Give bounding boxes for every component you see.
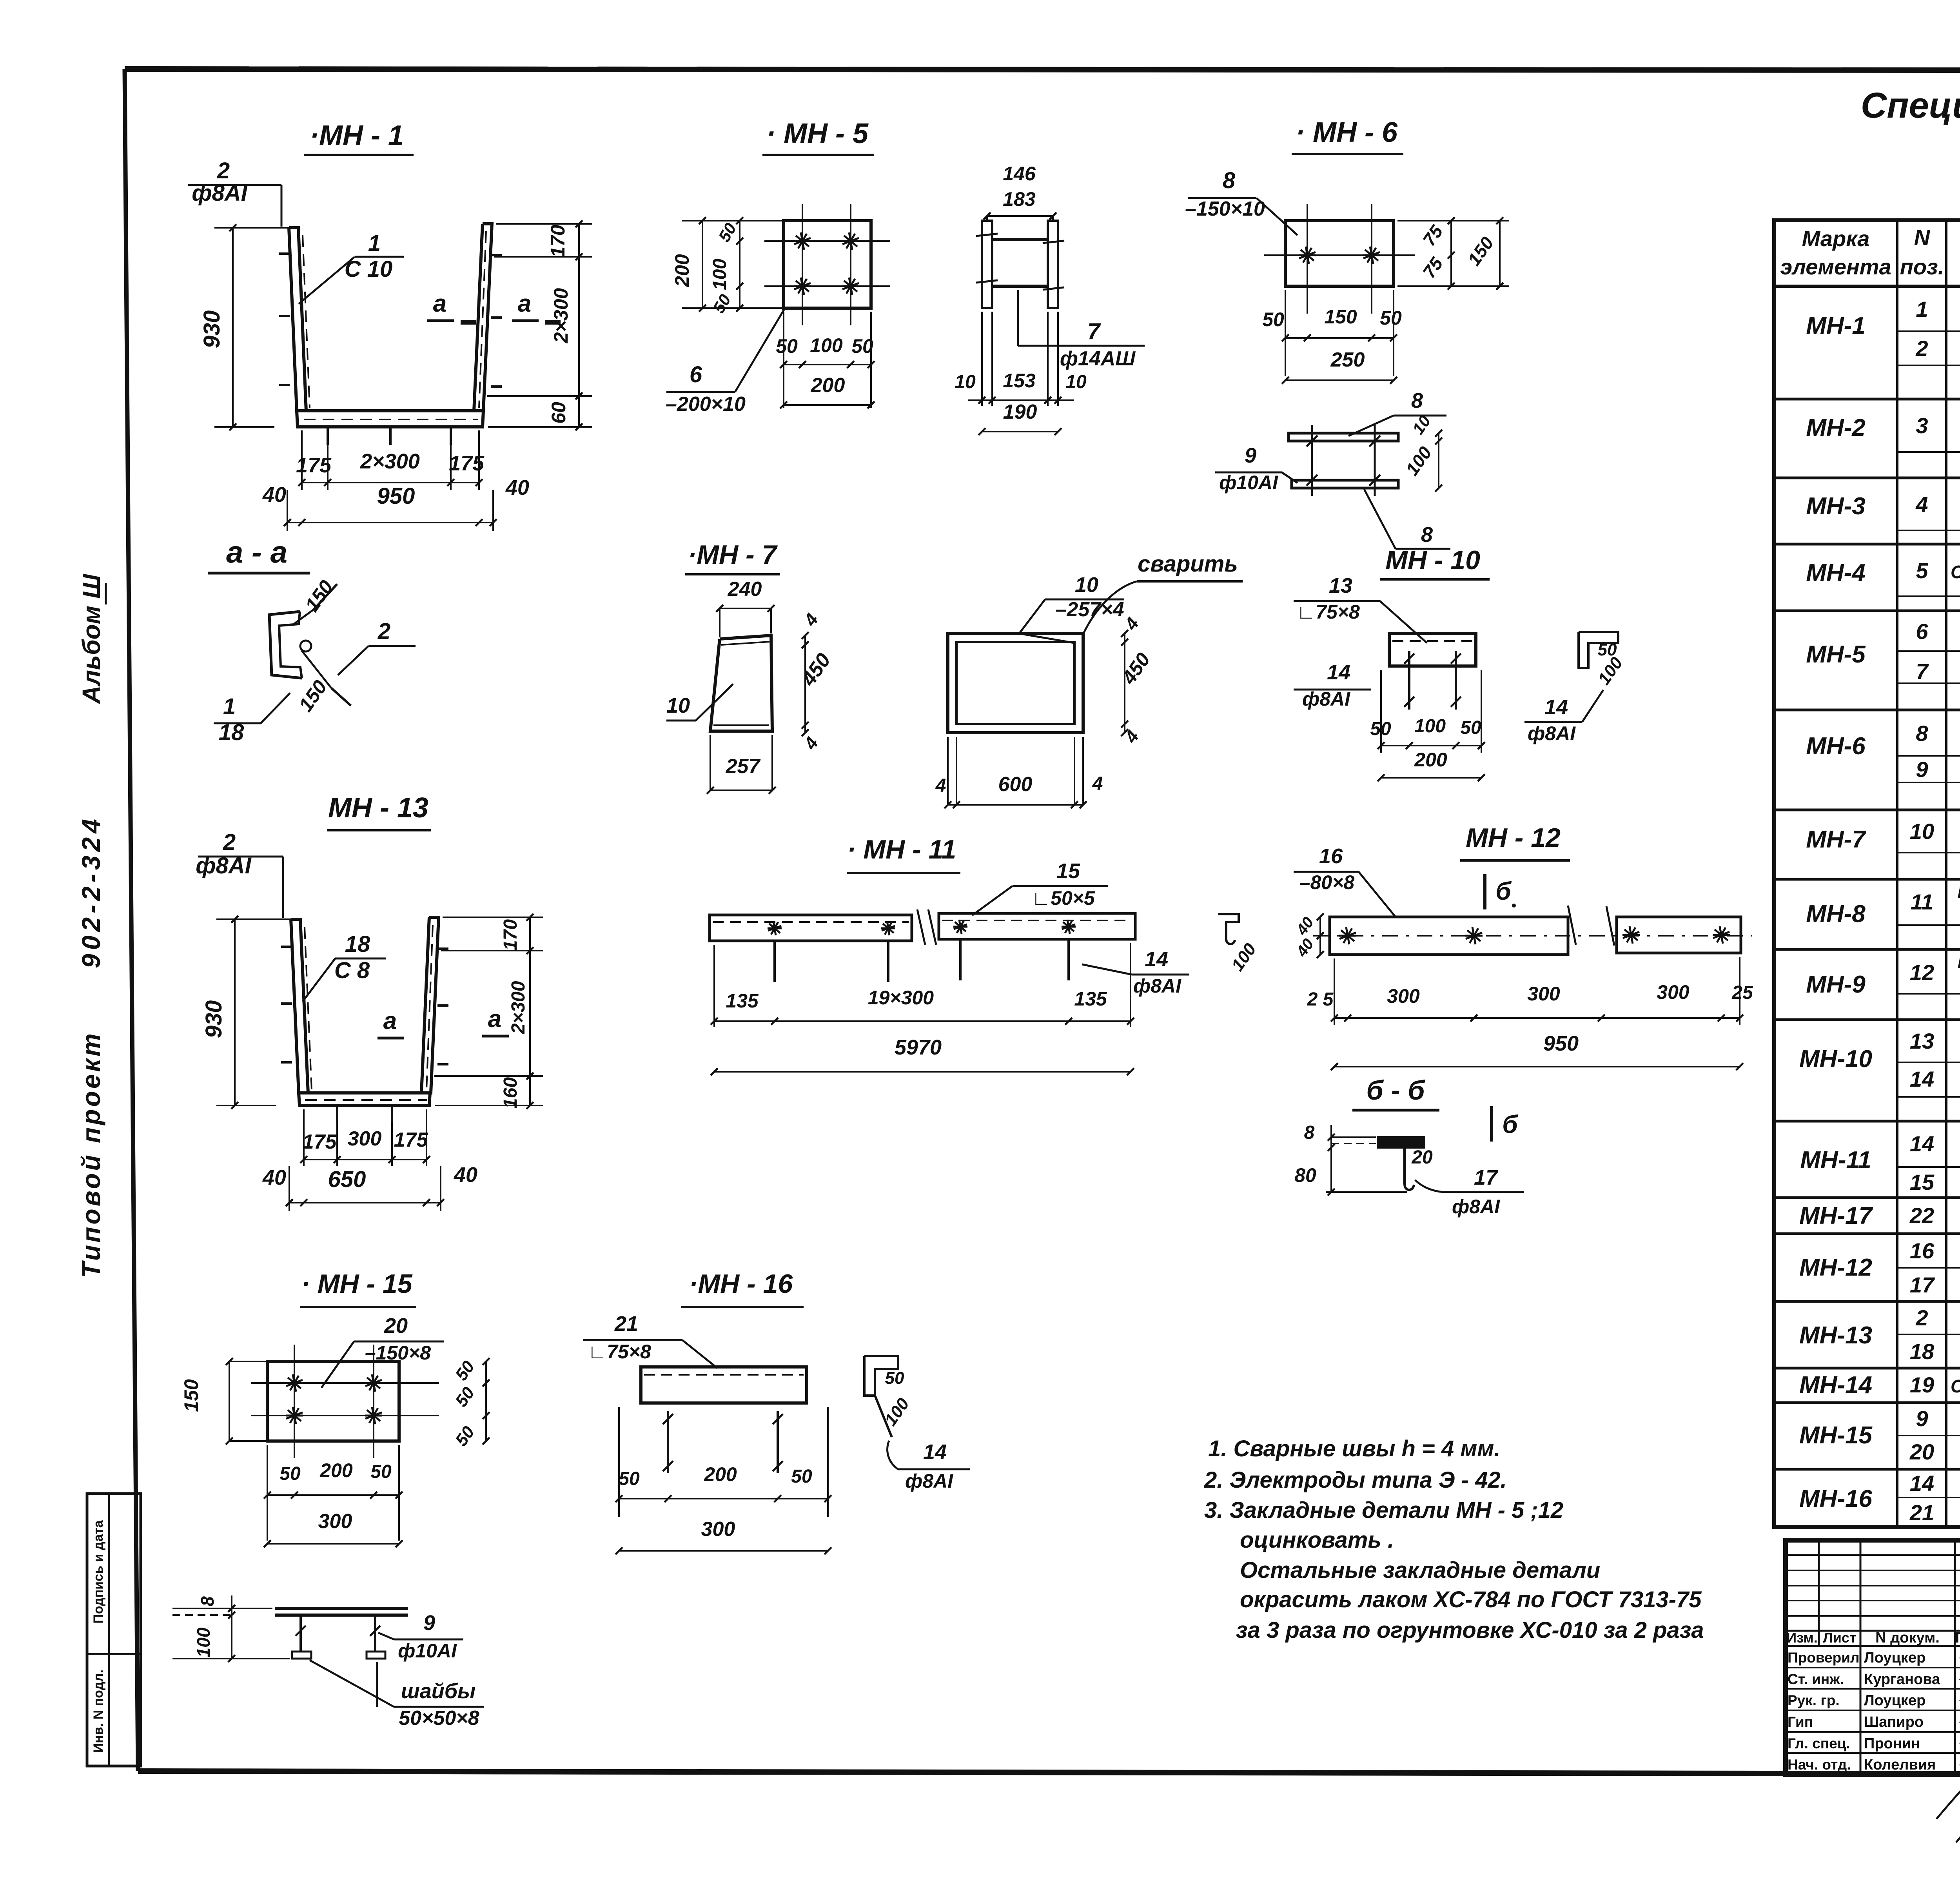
svg-text:50: 50: [619, 1468, 640, 1489]
svg-text:17: 17: [1474, 1166, 1499, 1189]
MN-10 angle symbol right with 50 100: [1524, 632, 1627, 744]
svg-text:300: 300: [1387, 985, 1420, 1007]
svg-text:7: 7: [1087, 319, 1101, 344]
MN-6 bottom dimensions 50 150 50 / 250: [1262, 290, 1402, 384]
MN-15 right dimensions 50 50 50: [452, 1357, 490, 1450]
svg-text:15: 15: [1910, 1170, 1935, 1194]
svg-text:4: 4: [1915, 492, 1928, 517]
svg-text:элемента: элемента: [1780, 254, 1891, 279]
MN-11 leader label 14 / f8AI with hook: [1082, 947, 1189, 997]
svg-text:Колелвия: Колелвия: [1864, 1757, 1936, 1773]
svg-text:ф14АШ: ф14АШ: [1060, 347, 1136, 370]
svg-text:Пронин: Пронин: [1864, 1735, 1920, 1752]
svg-text:50: 50: [709, 291, 734, 316]
svg-text:МН-7: МН-7: [1806, 826, 1866, 853]
svg-text:18: 18: [1910, 1339, 1935, 1364]
svg-text:3. Закладные детали МН - 5: 3. Закладные детали МН - 5 ;12: [1204, 1497, 1563, 1523]
svg-text:·МН - 16: ·МН - 16: [689, 1269, 793, 1299]
svg-text:МН-9: МН-9: [1806, 971, 1866, 998]
MN-10 angle piece with anchors (pos 13,14): [1389, 633, 1476, 710]
MN-6 plate plan view (pos 8): [1264, 204, 1415, 314]
MN-12 bottom dimensions 25 300 300 300 25 / 950: [1307, 957, 1753, 1070]
svg-text:50: 50: [452, 1383, 479, 1410]
svg-text:200: 200: [319, 1459, 353, 1481]
figure MN-10 title: [1380, 545, 1490, 579]
svg-text:153: 153: [1003, 370, 1036, 392]
svg-text:МН-8: МН-8: [1806, 900, 1866, 927]
svg-text:100: 100: [193, 1627, 214, 1657]
MN-11 bottom dimensions 135 19x300 135 / 5970: [711, 943, 1134, 1075]
svg-text:183: 183: [1003, 188, 1036, 210]
svg-text:8: 8: [1223, 168, 1236, 193]
svg-text:б: б: [1495, 877, 1512, 905]
svg-text:50×50×8: 50×50×8: [399, 1707, 479, 1730]
svg-text:950: 950: [1543, 1032, 1579, 1055]
svg-text:∟50×5: ∟50×5: [1031, 887, 1095, 909]
svg-text:160: 160: [500, 1077, 521, 1109]
svg-text:Проверил: Проверил: [1788, 1650, 1859, 1666]
MN-5 side bottom dimensions 10 153 10 / 190: [955, 312, 1087, 435]
svg-text:МН-17: МН-17: [1799, 1202, 1873, 1229]
svg-text:175: 175: [296, 454, 332, 477]
svg-text:40: 40: [1293, 936, 1317, 960]
section a-a channel detail: [269, 584, 351, 706]
svg-text:50: 50: [279, 1463, 301, 1484]
svg-text:МН - 13: МН - 13: [328, 792, 428, 824]
svg-text:Курганова: Курганова: [1864, 1671, 1940, 1688]
MN-1 right dimensions 170 2x300 60: [487, 220, 592, 430]
MN-10 bottom dimensions 50 100 50 / 200: [1370, 670, 1485, 781]
svg-text:9: 9: [1916, 1406, 1928, 1431]
svg-text:100: 100: [1414, 716, 1446, 737]
MN-1 dimension 930 left: [199, 224, 289, 430]
svg-text:240: 240: [728, 578, 762, 601]
svg-text:50: 50: [1460, 717, 1481, 738]
MN-6 leader label 8 / -150x10 top: [1185, 168, 1298, 235]
svg-text:2×300: 2×300: [550, 288, 572, 344]
svg-text:Газовая трубка: Газовая трубка: [1958, 883, 1960, 901]
svg-text:9: 9: [1916, 757, 1928, 782]
svg-text:8: 8: [1411, 389, 1423, 412]
figure MN-16 title: [681, 1269, 804, 1307]
svg-text:170: 170: [500, 919, 521, 951]
MN-15 side leader shaiby 50x50x8: [310, 1660, 484, 1730]
section marker b lower: [1492, 1106, 1519, 1142]
svg-text:поз.: поз.: [1900, 254, 1944, 279]
svg-text:19: 19: [1910, 1372, 1934, 1397]
svg-text:Марка: Марка: [1802, 226, 1870, 251]
svg-text:8: 8: [1304, 1122, 1315, 1143]
svg-text:сварить: сварить: [1138, 551, 1238, 577]
svg-text:МН-10: МН-10: [1799, 1045, 1872, 1073]
svg-text:Изм.: Изм.: [1786, 1630, 1818, 1646]
MN-10 leader label 13 / L75x8: [1294, 574, 1427, 643]
svg-text:19×300: 19×300: [868, 987, 934, 1009]
svg-text:14: 14: [1327, 661, 1350, 684]
MN-1 channel profile (pos 1 C10): [289, 224, 492, 427]
svg-text:8: 8: [197, 1596, 218, 1606]
svg-text:10: 10: [1910, 819, 1934, 844]
svg-text:950: 950: [377, 483, 415, 509]
svg-text:300: 300: [348, 1127, 382, 1150]
svg-text:40: 40: [505, 476, 529, 499]
MN-13 dimension 930 left: [201, 916, 291, 1109]
svg-text:21: 21: [1909, 1500, 1934, 1525]
svg-text:50: 50: [1262, 309, 1284, 330]
svg-text:20: 20: [1411, 1147, 1433, 1168]
svg-text:Остальные закладные детали: Остальные закладные детали: [1240, 1557, 1600, 1583]
svg-text:13: 13: [1329, 574, 1352, 597]
svg-text:Инв. N подл.: Инв. N подл.: [91, 1670, 106, 1753]
section b-b leader 17 / f8AI: [1415, 1166, 1524, 1218]
svg-text:135: 135: [1074, 988, 1107, 1010]
svg-text:300: 300: [701, 1518, 735, 1541]
svg-text:1: 1: [1916, 297, 1928, 321]
svg-text:С 8: С 8: [334, 958, 370, 983]
svg-text:Ст. инж.: Ст. инж.: [1788, 1671, 1844, 1687]
svg-text:50: 50: [885, 1369, 904, 1388]
MN-12 left dimensions 40 40: [1293, 913, 1324, 960]
svg-text:б - б: б - б: [1367, 1075, 1426, 1105]
svg-text:Гип: Гип: [1788, 1714, 1813, 1730]
MN-6 right dimensions 75 75 150: [1397, 217, 1509, 290]
svg-text:60: 60: [548, 402, 570, 424]
svg-text:ф8АІ: ф8АІ: [196, 853, 252, 878]
svg-text:100: 100: [710, 259, 730, 290]
svg-text:· МН - 15: · МН - 15: [301, 1269, 413, 1299]
svg-text:9: 9: [423, 1611, 435, 1635]
svg-text:2 5: 2 5: [1307, 989, 1334, 1010]
svg-text:МН-2: МН-2: [1806, 414, 1866, 441]
svg-text:МН-14: МН-14: [1799, 1372, 1872, 1399]
svg-text:Сальник Ду=300: Сальник Ду=300: [1951, 1376, 1960, 1396]
MN-5 side view (two plates with bolts pos 7): [976, 221, 1064, 308]
specification heading: [1861, 85, 1960, 176]
MN-1 anchor ticks (pos 2): [279, 254, 502, 445]
MN-15 side view bottom (pos 9 washers): [275, 1608, 408, 1659]
svg-text:10: 10: [1075, 573, 1098, 597]
bottom-left margin table (Инв.N подл / Подпись и дата): [87, 1494, 141, 1766]
svg-text:135: 135: [726, 990, 759, 1012]
svg-text:–150×10: –150×10: [1185, 198, 1265, 220]
svg-text:ф8АІ: ф8АІ: [1133, 975, 1181, 997]
svg-text:Сальник Ду=600: Сальник Ду=600: [1951, 562, 1960, 582]
figure MN-7 title: [685, 540, 780, 574]
MN-15 side leader 9 / f10AI: [378, 1611, 463, 1662]
notes text block: [1204, 1436, 1704, 1643]
svg-text:16: 16: [1910, 1238, 1935, 1263]
svg-text:а: а: [518, 290, 531, 317]
specification table header text: [1780, 225, 1960, 284]
svg-text:9: 9: [1245, 444, 1256, 467]
svg-text:· МН - 5: · МН - 5: [766, 118, 869, 149]
svg-text:40: 40: [262, 483, 286, 506]
svg-text:Лист: Лист: [1823, 1630, 1856, 1646]
svg-text:300: 300: [318, 1510, 352, 1533]
svg-text:–257×4: –257×4: [1056, 598, 1124, 621]
MN-15 bottom dimensions 50 200 50 / 300: [264, 1445, 403, 1547]
MN-13 right dimensions 170 2x300 160: [434, 914, 543, 1109]
section a-a title: [208, 535, 310, 573]
MN-5 leader label 6 / -200x10: [666, 310, 784, 416]
title block signature rows: [1788, 1645, 1960, 1842]
svg-text:150: 150: [180, 1379, 202, 1412]
svg-text:ф8АІ: ф8АІ: [1452, 1196, 1500, 1218]
svg-text:2×300: 2×300: [360, 450, 420, 473]
svg-text:2: 2: [377, 619, 390, 644]
svg-text:4: 4: [800, 733, 822, 753]
svg-text:50: 50: [776, 335, 798, 357]
svg-text:Подпись: Подпись: [1955, 1630, 1960, 1646]
MN-7 bent box detail (korob): [948, 633, 1083, 733]
svg-text:20: 20: [384, 1314, 408, 1338]
svg-text:50: 50: [791, 1466, 812, 1487]
MN-13 bottom dimensions 175 300 175 / 650 / 40: [262, 1109, 477, 1211]
MN-12 flat bar with holes (pos 16): [1313, 906, 1752, 955]
svg-text:200: 200: [671, 254, 693, 287]
MN-6 side labels 8 9/f10AI 8 and dims 10 100: [1215, 389, 1450, 549]
svg-text:450: 450: [797, 649, 835, 690]
svg-text:МН-16: МН-16: [1799, 1485, 1873, 1512]
svg-text:930: 930: [199, 310, 225, 348]
svg-text:а: а: [383, 1007, 397, 1035]
svg-text:· МН - 6: · МН - 6: [1296, 117, 1398, 148]
svg-text:∟75×8: ∟75×8: [1296, 601, 1360, 623]
svg-text:1: 1: [223, 694, 236, 719]
svg-text:ф10АІ: ф10АІ: [1219, 472, 1278, 494]
svg-text:190: 190: [1003, 401, 1037, 423]
figure MN-6 title: [1292, 117, 1403, 154]
svg-text:25: 25: [1731, 982, 1753, 1003]
section b-b title: [1352, 1075, 1439, 1110]
svg-text:50: 50: [370, 1461, 392, 1482]
MN-11 leader label 15 / L50x5: [972, 859, 1108, 915]
svg-text:300: 300: [1527, 983, 1560, 1005]
MN-15 plate plan view (pos 20): [251, 1345, 439, 1458]
korob label svarit with leader: [1083, 551, 1243, 635]
MN-1 section marks a-a: [427, 290, 561, 322]
left margin stamp: Альбом III: [77, 574, 106, 704]
svg-text:14: 14: [1910, 1471, 1934, 1496]
MN-11 anchor pins (pos 14): [768, 920, 1076, 982]
svg-text:5: 5: [1916, 558, 1928, 583]
svg-text:4: 4: [1120, 726, 1143, 747]
svg-text:·МН - 7: ·МН - 7: [688, 540, 778, 570]
svg-text:МН-11: МН-11: [1800, 1147, 1871, 1174]
svg-text:40: 40: [454, 1163, 477, 1187]
svg-text:Подпись и дата: Подпись и дата: [91, 1520, 106, 1624]
svg-text:8: 8: [1916, 721, 1928, 746]
svg-text:Лоуцкер: Лоуцкер: [1864, 1650, 1926, 1666]
svg-text:200: 200: [811, 374, 845, 397]
korob dimensions 4 600 4 / 4 450 4: [935, 613, 1154, 808]
title block header row labels: [1786, 1630, 1960, 1646]
MN-5 bottom dimensions 50 100 50 / 200: [776, 312, 875, 408]
svg-text:МН-12: МН-12: [1799, 1254, 1872, 1281]
MN-10 leader label 14 / f8AI: [1294, 661, 1371, 710]
svg-text:за 3 раза по огрунтовке Х: за 3 раза по огрунтовке ХС-010 за 2 раза: [1236, 1617, 1704, 1643]
svg-text:а - а: а - а: [226, 535, 287, 569]
svg-text:40: 40: [1293, 914, 1317, 939]
svg-text:Гл. спец.: Гл. спец.: [1788, 1735, 1850, 1752]
svg-text:оцинковать .: оцинковать .: [1240, 1527, 1394, 1553]
MN-13 section marks a-a: [377, 1006, 509, 1038]
svg-text:·МН - 1: ·МН - 1: [310, 120, 404, 151]
figure MN-12 title: [1460, 823, 1570, 860]
svg-text:17: 17: [1910, 1272, 1935, 1297]
svg-text:Типовой проект: Типовой проект: [76, 1031, 105, 1278]
svg-text:2: 2: [1915, 336, 1928, 361]
svg-text:14: 14: [923, 1440, 947, 1464]
svg-text:8: 8: [1421, 523, 1433, 546]
svg-text:14: 14: [1145, 947, 1168, 971]
svg-text:11: 11: [1911, 889, 1933, 914]
svg-text:250: 250: [1330, 348, 1365, 371]
svg-text:300: 300: [1657, 981, 1690, 1003]
MN-15 leader label 20 / -150x8: [321, 1314, 444, 1388]
svg-text:150: 150: [301, 576, 338, 616]
svg-text:3: 3: [1916, 413, 1928, 438]
figure MN-11 title: [847, 835, 960, 873]
svg-text:10: 10: [666, 694, 690, 717]
svg-text:4: 4: [1092, 773, 1103, 794]
svg-text:Рук. гр.: Рук. гр.: [1788, 1692, 1840, 1708]
figure MN-1 title: [304, 120, 414, 155]
svg-text:80: 80: [1294, 1164, 1316, 1186]
svg-text:Спецификация металла на: Спецификация металла на 1 штуку: [1861, 85, 1960, 125]
figure MN-5 title: [762, 118, 874, 155]
svg-text:170: 170: [547, 225, 569, 258]
svg-text:20: 20: [1909, 1439, 1934, 1464]
svg-text:50: 50: [452, 1423, 479, 1450]
title block left columns grid: [1786, 1540, 1960, 1775]
svg-text:22: 22: [1909, 1203, 1934, 1228]
svg-text:а: а: [488, 1006, 501, 1033]
svg-text:4: 4: [800, 610, 822, 630]
svg-text:МН-3: МН-3: [1806, 493, 1866, 520]
svg-text:ф8АІ: ф8АІ: [1302, 688, 1350, 710]
svg-text:Нач. отд.: Нач. отд.: [1788, 1757, 1851, 1773]
svg-text:257: 257: [726, 755, 761, 778]
svg-text:2. Электроды типа Э - 42.: 2. Электроды типа Э - 42.: [1204, 1467, 1507, 1493]
section a-a labels 150 150 2 1/18: [214, 576, 416, 745]
svg-text:ф8АІ: ф8АІ: [192, 180, 248, 206]
svg-text:12: 12: [1910, 960, 1934, 985]
figure MN-13 title: [327, 792, 431, 830]
MN-5 leader label 7 / f14AIII: [1018, 290, 1145, 370]
svg-text:7: 7: [1916, 659, 1929, 684]
MN-16 leader label 21 / L75x8: [583, 1312, 717, 1368]
svg-text:150: 150: [1464, 233, 1498, 269]
MN-16 angle symbol right with 50 100 leader 14/f8AI: [864, 1356, 970, 1492]
MN-1 leader label 1 / C10: [299, 231, 404, 304]
MN-13 leader label 18 / C8: [303, 931, 386, 1002]
svg-text:2×300: 2×300: [508, 981, 529, 1034]
MN-7 dimensions 240 450 4 4 257: [707, 578, 835, 794]
svg-text:16: 16: [1319, 844, 1343, 868]
svg-text:МН-13: МН-13: [1799, 1322, 1872, 1349]
svg-text:650: 650: [328, 1167, 366, 1192]
svg-text:200: 200: [704, 1463, 737, 1485]
MN-15 left dimension 150: [180, 1358, 267, 1445]
svg-text:930: 930: [201, 1000, 227, 1038]
svg-text:МН-5: МН-5: [1806, 641, 1866, 668]
specification table data rows: [1799, 297, 1960, 1525]
korob leader label 10 / -257x4: [1019, 573, 1124, 643]
svg-text:5970: 5970: [895, 1036, 942, 1059]
svg-text:а: а: [433, 290, 446, 317]
left margin stamp: Типовой проект 902-2-324: [76, 815, 105, 1278]
MN-15 side dims 8 100: [172, 1595, 290, 1662]
svg-text:450: 450: [1118, 649, 1154, 688]
svg-text:Шапиро: Шапиро: [1864, 1714, 1924, 1730]
svg-text:2: 2: [223, 829, 236, 855]
svg-text:Газовая трубка: Газовая трубка: [1958, 953, 1960, 972]
svg-text:50: 50: [851, 335, 873, 357]
svg-text:ф8АІ: ф8АІ: [905, 1470, 953, 1492]
svg-text:100: 100: [1228, 940, 1260, 975]
svg-text:902-2-324: 902-2-324: [76, 815, 105, 968]
svg-text:· МН - 11: · МН - 11: [847, 835, 956, 864]
svg-text:ф10АІ: ф10АІ: [398, 1640, 457, 1662]
svg-text:15: 15: [1056, 859, 1080, 883]
svg-text:75: 75: [1419, 253, 1447, 282]
MN-16 bottom dimensions 50 200 50 / 300: [615, 1407, 831, 1554]
svg-text:МН-6: МН-6: [1806, 733, 1866, 760]
MN-11 long angle bar (pos 15): [710, 909, 1135, 945]
svg-text:4: 4: [1120, 613, 1143, 634]
svg-text:13: 13: [1910, 1029, 1934, 1053]
MN-1 leader label 2 / f8AI: [188, 158, 281, 227]
svg-text:100: 100: [1402, 443, 1436, 479]
svg-text:14: 14: [1544, 695, 1568, 719]
MN-5 plate plan view (pos 6): [764, 204, 890, 325]
MN-12 leader label 16 / -80x8: [1294, 844, 1396, 917]
svg-text:200: 200: [1414, 749, 1447, 771]
svg-text:N докум.: N докум.: [1875, 1630, 1940, 1646]
title block outer frame: [1786, 1540, 1960, 1775]
MN-5 left dimensions 200 100 50: [671, 217, 784, 316]
svg-text:14: 14: [1910, 1131, 1934, 1156]
svg-text:1. Сварные швы h = 4 мм.: 1. Сварные швы h = 4 мм.: [1208, 1436, 1500, 1461]
svg-text:N: N: [1914, 225, 1931, 250]
svg-text:10: 10: [1065, 372, 1087, 392]
svg-text:∟75×8: ∟75×8: [588, 1341, 651, 1363]
svg-text:18: 18: [219, 720, 244, 745]
MN-16 angle piece with anchors (pos 21,14): [641, 1367, 807, 1473]
svg-text:75: 75: [1419, 221, 1447, 250]
svg-text:–80×8: –80×8: [1299, 871, 1355, 893]
svg-text:100: 100: [810, 334, 843, 356]
svg-text:175: 175: [449, 452, 485, 475]
MN-7 trapezoid plate (pos 10): [710, 635, 772, 731]
MN-7 leader label 10: [666, 684, 733, 721]
svg-text:ф8АІ: ф8АІ: [1528, 722, 1576, 744]
svg-text:МН - 10: МН - 10: [1385, 545, 1480, 575]
svg-text:–200×10: –200×10: [666, 393, 746, 416]
svg-text:окрасить лаком ХС-784 по Г: окрасить лаком ХС-784 по ГОСТ 7313-75: [1240, 1587, 1702, 1612]
svg-text:2: 2: [1915, 1305, 1928, 1330]
svg-text:10: 10: [955, 372, 976, 392]
svg-text:МН-4: МН-4: [1806, 559, 1866, 586]
MN-13 leader label 2 / f8AI: [196, 829, 283, 918]
svg-text:МН-15: МН-15: [1799, 1422, 1873, 1449]
MN-1 bottom dimensions 175 2x300 175 / 950 / 40: [262, 430, 529, 531]
svg-text:40: 40: [262, 1166, 286, 1189]
svg-text:б: б: [1502, 1110, 1519, 1138]
svg-text:175: 175: [303, 1131, 337, 1153]
svg-text:4: 4: [935, 775, 946, 796]
